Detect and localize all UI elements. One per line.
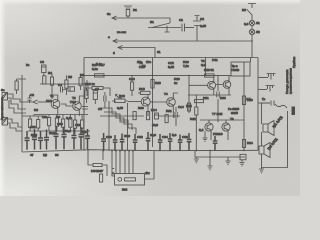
- wire R2 top: [17, 79, 26, 81]
- svg-text:Т1: Т1: [50, 94, 54, 98]
- junction rail x152: [152, 75, 154, 77]
- svg-text:Л1: Л1: [256, 21, 260, 25]
- wire R11: [131, 75, 133, 96]
- resistor R4: [50, 77, 53, 85]
- wire R6: [80, 75, 82, 90]
- capacitor C17: [217, 92, 219, 98]
- svg-text:68: 68: [55, 153, 59, 157]
- capacitor C9 on border: [82, 107, 88, 114]
- svg-text:R10: R10: [119, 94, 125, 98]
- wire speaker return: [262, 111, 288, 168]
- wire vertical x205.6: [205, 58, 207, 76]
- stage2 ground caps: cap C29: [101, 133, 106, 151]
- resistor R17 on rail: [95, 74, 105, 77]
- svg-text:б: б: [113, 51, 115, 55]
- svg-text:R3: R3: [34, 108, 38, 112]
- wire T3 base: [128, 101, 141, 103]
- resistor R3: [43, 76, 46, 84]
- wire drop x116: [115, 151, 117, 174]
- resistor R24: [242, 140, 245, 148]
- connector break: [271, 101, 274, 106]
- resistor R40: [81, 120, 84, 128]
- wire T4 base: [150, 101, 167, 103]
- big cap C24: [54, 126, 59, 149]
- wire Gr2 down: [261, 154, 263, 168]
- svg-text:а: а: [108, 35, 110, 39]
- wire R1 to line: [127, 16, 129, 18]
- wire R43: [37, 116, 39, 131]
- wire drop x129: [128, 151, 130, 174]
- resistor R23: [242, 96, 245, 105]
- paper noise texture: [0, 0, 300, 196]
- wire T3 emitter: [147, 105, 149, 116]
- wire Gr1 to Gr2: [261, 132, 263, 146]
- wire left border taps: [22, 115, 44, 117]
- big cap C28: [85, 129, 90, 149]
- wire pickup down to y41: [196, 26, 198, 42]
- speaker Gr1: [263, 124, 268, 132]
- svg-text:R32: R32: [190, 117, 196, 121]
- wire stage2 lower bus: [100, 115, 144, 117]
- capacitor C4: [61, 87, 67, 93]
- wire input line y18: [112, 18, 170, 23]
- svg-text:б1: б1: [157, 50, 161, 54]
- wire box right up: [145, 151, 155, 179]
- power plug T-bar: [248, 4, 256, 9]
- wire switch to lamp: [251, 15, 253, 21]
- big cap C22: [38, 131, 43, 150]
- wire x250.5 into box: [250, 58, 252, 63]
- svg-text:Т4: Т4: [142, 64, 146, 68]
- big cap C21: [32, 129, 37, 150]
- wire T3 collector: [138, 93, 148, 99]
- bottom left hook wire: [88, 150, 93, 165]
- svg-text:0,5: 0,5: [201, 63, 206, 67]
- svg-text:R8: R8: [80, 73, 84, 77]
- svg-text:5,0: 5,0: [82, 130, 87, 134]
- wire main vertical bus x84: [83, 58, 85, 151]
- resistor R8: [62, 119, 65, 127]
- svg-text:R20 51: R20 51: [204, 68, 214, 72]
- svg-text:5,0: 5,0: [172, 133, 177, 137]
- wire drop x120: [119, 151, 121, 174]
- wire pickup step 2: [8, 98, 27, 109]
- ground G4: [207, 166, 212, 170]
- flex wire: [275, 104, 287, 108]
- svg-text:50,0: 50,0: [31, 133, 37, 137]
- svg-text:С1: С1: [179, 18, 183, 22]
- wire T5 collector: [213, 77, 215, 82]
- wire speaker feed y103: [258, 102, 270, 104]
- wire stage1 lower bus: [34, 114, 88, 116]
- wire C1 to pickup coil: [185, 27, 195, 29]
- wire R4 stem: [51, 74, 53, 99]
- x mark left: [112, 172, 114, 174]
- junction rail x205: [205, 75, 207, 77]
- transistor T4: [167, 98, 176, 107]
- svg-text:5,6к: 5,6к: [92, 67, 98, 71]
- ecap C5 barrel: [68, 87, 75, 91]
- resistor R15: [133, 112, 136, 120]
- wire C3-R3: [43, 73, 45, 76]
- svg-text:Звукосниматель: Звукосниматель: [0, 96, 4, 120]
- resistor R20 on rail: [205, 74, 215, 77]
- wire R39: [69, 115, 71, 132]
- wire output mid bus: [188, 94, 231, 96]
- wire pickup step 3: [9, 100, 26, 113]
- wire R38: [56, 115, 58, 132]
- resistor R2: [15, 81, 18, 90]
- wire drop x112: [112, 151, 115, 176]
- frame left border: [21, 75, 23, 152]
- mic connector box: [2, 118, 8, 126]
- wire C7: [94, 90, 96, 104]
- wire R25 right: [102, 165, 107, 176]
- svg-text:С32: С32: [137, 135, 143, 139]
- svg-text:С2: С2: [30, 93, 34, 97]
- svg-text:4,7: 4,7: [246, 97, 251, 101]
- wire T1 collector: [52, 95, 58, 101]
- resistor R13 horiz: [141, 91, 151, 94]
- svg-text:20,0: 20,0: [49, 131, 55, 135]
- junction lamp line y41: [251, 40, 253, 42]
- wire R42: [29, 116, 31, 131]
- wire line y47.5: [118, 48, 155, 58]
- resistor R37 on border: [85, 90, 88, 99]
- wire stair 3: [108, 116, 136, 134]
- capacitor C8: [104, 96, 106, 102]
- svg-text:R5: R5: [68, 75, 72, 79]
- wire bottom sub y157: [195, 151, 245, 158]
- junction T4 base: [152, 101, 154, 103]
- svg-text:6,3: 6,3: [244, 22, 249, 26]
- ground G1: [202, 131, 207, 141]
- arrow into stage1: [26, 100, 38, 104]
- jack J2: [266, 86, 275, 92]
- svg-text:П30В: П30В: [232, 68, 240, 72]
- cap C37: [187, 133, 192, 151]
- svg-text:С7: С7: [95, 87, 99, 91]
- arrow line y47.5: [118, 46, 123, 50]
- wire drop x103: [102, 151, 104, 160]
- resistor R21: [195, 100, 204, 103]
- pickup element bars: [193, 16, 201, 26]
- svg-text:R33: R33: [220, 96, 226, 100]
- wire stage1 bus y84: [40, 83, 84, 85]
- svg-text:Приёмн: Приёмн: [292, 56, 296, 68]
- resistor R43: [37, 120, 40, 129]
- resistor R25: [93, 163, 102, 166]
- svg-text:120: 120: [42, 115, 47, 119]
- wire lamp to frame: [251, 35, 253, 58]
- wire R22 stem: [195, 95, 197, 151]
- ecap C10: [155, 113, 159, 119]
- wire R7: [48, 115, 50, 132]
- svg-text:Зв: Зв: [107, 12, 111, 16]
- svg-text:47: 47: [30, 153, 34, 157]
- transistor T8: [222, 123, 230, 131]
- resistor R1: [126, 10, 130, 17]
- wire drop x125: [124, 151, 126, 174]
- wire switch row y27: [148, 27, 181, 29]
- junction x84 bus: [83, 83, 85, 85]
- svg-text:30,0: 30,0: [124, 134, 130, 138]
- switch B1: [152, 23, 170, 28]
- wire T5 emitter: [213, 89, 215, 95]
- frame right border: [257, 58, 259, 151]
- big cap C26: [72, 128, 77, 149]
- svg-text:Гр: Гр: [262, 97, 266, 101]
- svg-text:R31: R31: [166, 109, 172, 113]
- svg-text:R1: R1: [133, 8, 137, 12]
- wire speaker chain: [262, 103, 271, 124]
- antenna bar top: [124, 6, 132, 8]
- wire x210 down: [209, 150, 211, 166]
- svg-text:R28: R28: [155, 81, 161, 85]
- box small right: [240, 154, 246, 160]
- wire stage2 lower bus b: [158, 115, 180, 117]
- wire pickup step 1: [8, 94, 27, 102]
- wire T2 emitter: [78, 109, 80, 116]
- wire R8: [62, 115, 64, 134]
- resistor R16: [165, 115, 168, 123]
- svg-text:0,05: 0,05: [117, 106, 123, 110]
- resistor R39: [69, 119, 72, 127]
- resistor R5: [65, 80, 68, 88]
- svg-text:С4: С4: [58, 83, 62, 87]
- svg-text:Т7 П4Б: Т7 П4Б: [212, 112, 222, 116]
- wire vertical x244: [243, 76, 245, 150]
- svg-text:Л2: Л2: [256, 30, 260, 34]
- svg-text:С30: С30: [106, 135, 112, 139]
- wire stair 1: [100, 108, 128, 126]
- motor circle: [118, 178, 122, 182]
- lamp L1: [249, 20, 254, 25]
- svg-text:Ус: Ус: [26, 63, 30, 67]
- frame top border: [84, 57, 258, 59]
- svg-text:на зап: на зап: [117, 30, 126, 34]
- resistor R7: [48, 118, 51, 126]
- capacitor C1: [182, 24, 185, 32]
- resistor R18: [92, 86, 103, 89]
- svg-text:R17: R17: [99, 63, 105, 67]
- wire pot right down: [127, 103, 129, 151]
- svg-text:R30: R30: [138, 106, 144, 110]
- jack plug dark: [292, 107, 296, 116]
- transistor T1: [51, 100, 60, 109]
- x mark right: [145, 172, 147, 174]
- svg-text:С8: С8: [98, 107, 102, 111]
- resistor R22: [195, 107, 198, 115]
- svg-text:6205: 6205: [231, 111, 238, 115]
- wire R2 bottom: [16, 90, 18, 94]
- wire R18 leads: [84, 88, 110, 96]
- wire C11 stem: [175, 107, 177, 126]
- arrow input y18: [112, 16, 117, 20]
- svg-text:R13: R13: [139, 87, 145, 91]
- cap C34: [158, 134, 163, 151]
- transformer box: [231, 62, 250, 76]
- wire pot left down: [108, 101, 110, 151]
- transistor T6: [223, 81, 231, 89]
- wire R5: [65, 75, 67, 95]
- ground G6: [194, 157, 199, 163]
- svg-text:П201Э: П201Э: [213, 132, 223, 136]
- bottom caps row: big cap C20: [25, 131, 30, 150]
- wire T7 emitter: [211, 131, 228, 141]
- svg-text:В2: В2: [242, 8, 246, 12]
- svg-text:С13: С13: [129, 77, 135, 81]
- wire T2 collector: [79, 96, 84, 103]
- wire T6 leads: [216, 76, 229, 95]
- cap C31: [120, 134, 125, 151]
- resistor R11: [131, 82, 134, 90]
- capacitor C11: [175, 112, 177, 118]
- wire stair 2: [104, 112, 132, 130]
- svg-text:R4: R4: [48, 71, 52, 75]
- resistor R10 volume pot: [115, 99, 126, 103]
- transistor T5: [208, 81, 216, 89]
- svg-text:С22: С22: [30, 125, 36, 129]
- big cap C25: [62, 127, 67, 149]
- svg-text:С3: С3: [40, 60, 44, 64]
- lamp L2: [249, 29, 254, 34]
- resistor R9: [74, 120, 77, 128]
- arrow line y41: [113, 39, 118, 43]
- capacitor C6: [86, 85, 88, 91]
- wire between lamps: [251, 26, 253, 30]
- jack J1 wire: [258, 77, 268, 79]
- svg-text:Т8: Т8: [230, 117, 234, 121]
- wire T4 emitter: [172, 105, 174, 118]
- ecap C7 barrel: [93, 91, 97, 100]
- wire vertical x218: [217, 75, 219, 122]
- capacitor C2: [28, 95, 32, 103]
- svg-text:С34: С34: [162, 135, 168, 139]
- resistor R27 in box: [125, 178, 136, 181]
- wire R9: [74, 115, 76, 135]
- svg-text:С14: С14: [178, 105, 184, 109]
- resistor R12 on x152: [151, 80, 154, 89]
- svg-text:5,6: 5,6: [199, 128, 204, 132]
- svg-text:С24: С24: [57, 122, 63, 126]
- transistor T2: [73, 102, 82, 111]
- svg-text:7,5к: 7,5к: [183, 64, 189, 68]
- switch B2: [247, 9, 253, 15]
- cap C32: [133, 134, 138, 151]
- pickup connector box: [2, 93, 8, 101]
- svg-text:П13: П13: [46, 99, 52, 103]
- svg-text:Кн2: Кн2: [122, 188, 128, 192]
- ground G3: [239, 160, 244, 166]
- svg-text:100У: 100У: [96, 169, 103, 173]
- svg-text:R18 1к: R18 1к: [85, 82, 95, 86]
- svg-text:Ц2: Ц2: [43, 153, 47, 157]
- svg-text:R14: R14: [151, 108, 157, 112]
- wire R37: [86, 88, 88, 103]
- wire T2 base from T1: [61, 104, 73, 106]
- wire long line y41: [113, 40, 252, 42]
- svg-text:П41: П41: [212, 58, 218, 62]
- svg-text:С36: С36: [182, 135, 188, 139]
- cap C33: [146, 132, 151, 151]
- svg-text:R24: R24: [247, 141, 253, 145]
- ground G5: [259, 168, 264, 173]
- junction dots bottom border: [87, 149, 89, 151]
- wire R40: [81, 115, 83, 132]
- ground G2: [225, 157, 230, 164]
- svg-text:С2: С2: [200, 17, 204, 21]
- svg-text:10,0: 10,0: [152, 123, 158, 127]
- resistor R6: [79, 78, 82, 86]
- wire C6 stem: [86, 80, 88, 96]
- svg-text:Зв: Зв: [1, 88, 5, 92]
- cap C35: [168, 133, 173, 151]
- jack J1: [267, 74, 276, 80]
- wire vertical x152.5: [152, 58, 154, 148]
- wire T1 emitter: [57, 107, 59, 115]
- svg-text:С26: С26: [75, 123, 81, 127]
- motor box: [115, 174, 145, 186]
- ecap C3 barrel: [42, 65, 46, 73]
- svg-text:0,05: 0,05: [200, 24, 206, 28]
- wire C8 stem: [104, 92, 106, 108]
- wire vertical x189: [188, 75, 190, 113]
- wire mic step 2: [8, 123, 23, 131]
- svg-text:громкоговорителя: громкоговорителя: [289, 68, 293, 94]
- wire T5 base: [189, 84, 208, 86]
- resistor R14: [147, 112, 150, 120]
- wire supply rail y75.4: [84, 74, 231, 76]
- wire drop x133: [132, 151, 134, 174]
- svg-text:В1: В1: [150, 20, 154, 24]
- big cap C23: [44, 130, 49, 150]
- wire mic step 1: [8, 119, 23, 127]
- svg-text:10,0: 10,0: [150, 133, 156, 137]
- junction rail x189: [188, 75, 190, 77]
- transistor T3: [141, 97, 150, 106]
- svg-text:R21: R21: [203, 96, 209, 100]
- arrow onto pot: [116, 94, 120, 98]
- wire stage1 low bus2: [28, 130, 90, 132]
- wire base t1: [38, 101, 51, 103]
- transistor T7: [205, 123, 213, 131]
- resistor R38: [55, 118, 58, 126]
- cap C36: [178, 135, 183, 151]
- resistor R26: [100, 174, 103, 182]
- frame bottom border: [22, 150, 258, 152]
- cap C30: [113, 135, 118, 151]
- big cap C27: [79, 127, 84, 149]
- svg-text:П13: П13: [70, 100, 76, 104]
- switch B1 contact stub: [165, 26, 170, 32]
- resistor R42: [29, 119, 32, 128]
- wire T7 T8 links: [200, 120, 244, 123]
- svg-text:Т4: Т4: [164, 92, 168, 96]
- wire T4 collector: [173, 93, 178, 99]
- jack J2 wire: [258, 89, 267, 91]
- resistor R41: [187, 103, 190, 111]
- speaker Gr2: [259, 146, 264, 154]
- svg-text:27в: 27в: [146, 60, 151, 64]
- cap C38: [213, 136, 218, 151]
- svg-text:0,05: 0,05: [168, 65, 174, 69]
